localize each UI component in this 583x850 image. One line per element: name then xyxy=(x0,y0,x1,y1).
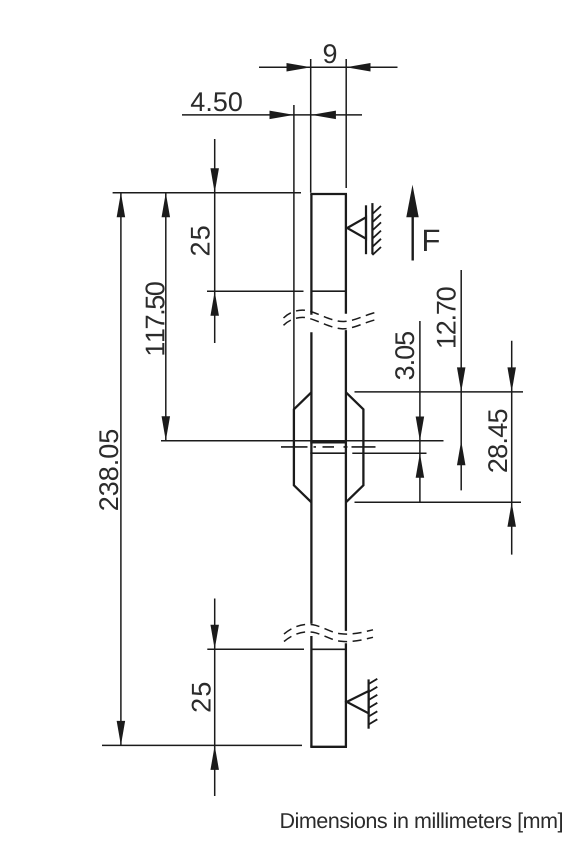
dimension line 4.50 xyxy=(182,114,362,116)
arrow 4.50 right xyxy=(311,111,336,120)
arrow 9 left xyxy=(287,63,312,71)
dimension line 238.05 xyxy=(120,193,122,746)
extension line bar-top left xyxy=(113,192,301,194)
label 25 lower xyxy=(192,683,211,712)
arrow 25 upper top xyxy=(210,168,219,193)
arrow 3.05 bottom xyxy=(416,453,425,478)
dimension line 117.50 xyxy=(165,193,167,441)
arrow 238.05 bottom xyxy=(117,721,126,746)
extension line slit top / 117.50 xyxy=(161,440,444,442)
force arrow F head xyxy=(406,185,418,217)
lower support back line xyxy=(368,679,370,728)
break line upper pair xyxy=(284,310,376,329)
caption xyxy=(281,812,562,832)
extension line 9 left vertical xyxy=(310,59,312,193)
extension line boss top xyxy=(355,391,524,393)
upper support hatching xyxy=(372,206,381,255)
arrow 25 upper bottom xyxy=(210,291,219,316)
upper support back line xyxy=(365,205,367,254)
arrow 28.45 bottom xyxy=(507,502,516,527)
arrow 4.50 left xyxy=(270,111,295,120)
extension line boss bottom xyxy=(355,501,522,503)
specimen bar bottom edge xyxy=(310,746,347,748)
arrowheads xyxy=(117,63,516,770)
label 9 xyxy=(324,44,336,63)
extension line 9 right vertical xyxy=(345,59,347,188)
arrow 12.70 bottom xyxy=(457,441,466,466)
arrow 12.70 top xyxy=(457,367,466,392)
extension line lower 25 xyxy=(207,648,304,650)
arrow 25 lower top xyxy=(210,625,219,650)
label 28.45 xyxy=(488,410,507,472)
label 25 upper xyxy=(191,226,210,255)
lower support hatching xyxy=(369,679,378,725)
label 238.05 xyxy=(99,430,118,510)
upper support wall line xyxy=(371,203,373,254)
specimen bar right edge xyxy=(345,194,347,747)
arrow 238.05 top xyxy=(117,193,126,218)
upper support triangle xyxy=(347,203,381,255)
specimen bar left edge xyxy=(310,194,312,747)
grip line lower xyxy=(311,648,346,650)
dimension line 25 lower xyxy=(214,599,216,797)
lower support triangle xyxy=(347,679,378,729)
arrow 9 right xyxy=(346,63,371,71)
notch slit top edge xyxy=(310,440,347,443)
arrow 117.50 top xyxy=(162,193,171,218)
notch slit bottom edge xyxy=(310,452,347,454)
hexagonal boss left half xyxy=(294,392,312,502)
label 4.50 xyxy=(191,92,242,111)
arrow 28.45 top xyxy=(507,367,516,392)
arrow 3.05 top xyxy=(416,417,425,442)
extension line slit bottom right xyxy=(352,452,426,454)
break line lower pair xyxy=(284,624,373,641)
grip line upper xyxy=(311,290,346,292)
arrow 117.50 bottom xyxy=(162,416,171,441)
dimension line 3.05 xyxy=(419,321,421,502)
arrow 25 lower bottom xyxy=(210,745,219,770)
extension line 4.50 vertical xyxy=(293,105,295,409)
label 117.50 xyxy=(145,282,164,354)
hexagonal boss right half xyxy=(346,392,364,502)
extension line upper 25 xyxy=(207,290,304,292)
force arrow F shaft xyxy=(412,216,414,261)
extension line bar-bottom left xyxy=(102,744,302,746)
label F xyxy=(424,230,439,251)
dimension line 9 xyxy=(259,66,398,68)
label 12.70 xyxy=(437,287,456,347)
label 3.05 xyxy=(395,332,414,379)
notch centerline dashes xyxy=(281,446,376,448)
dimension line 25 upper xyxy=(214,139,216,343)
dimension line 12.70 xyxy=(460,270,462,490)
dimension line 28.45 xyxy=(511,341,513,555)
specimen bar top edge xyxy=(310,193,347,195)
